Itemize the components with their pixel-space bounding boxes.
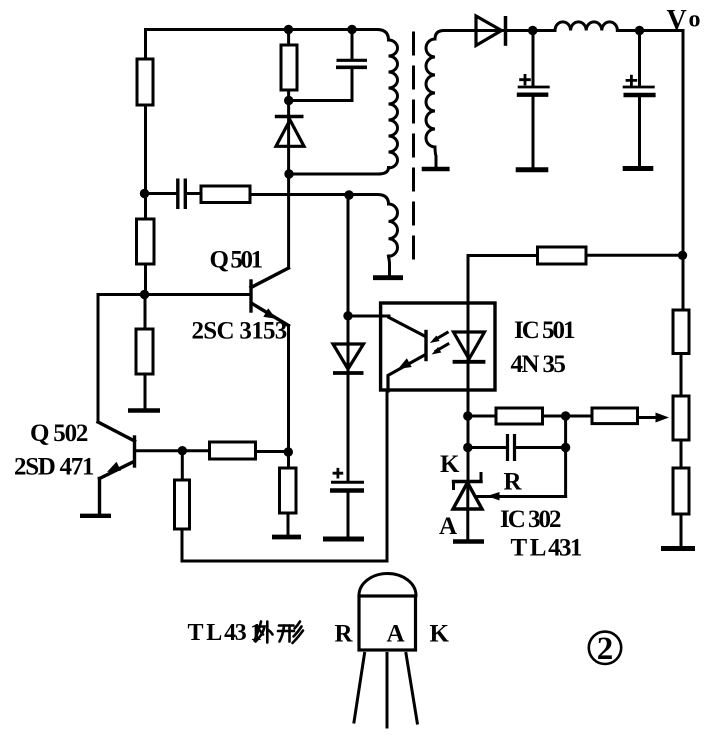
svg-text:T L 43 1: T L 43 1	[188, 620, 261, 646]
svg-text:IC 501: IC 501	[514, 317, 575, 344]
svg-text:R: R	[504, 469, 523, 496]
svg-text:K: K	[430, 621, 450, 648]
svg-text:A: A	[387, 621, 405, 648]
svg-text:Q 502: Q 502	[30, 420, 88, 447]
svg-text:K: K	[440, 451, 460, 478]
svg-text:T L 431: T L 431	[511, 535, 582, 562]
svg-text:R: R	[335, 621, 354, 648]
svg-text:2SD 471: 2SD 471	[14, 454, 94, 481]
svg-text:IC 302: IC 302	[500, 506, 561, 533]
svg-text:2SC 3153: 2SC 3153	[192, 318, 287, 345]
svg-text:V: V	[667, 5, 687, 36]
svg-text:o: o	[689, 7, 701, 33]
svg-text:A: A	[439, 513, 457, 540]
svg-text:2: 2	[597, 631, 614, 667]
svg-text:Q 501: Q 501	[210, 247, 263, 274]
svg-text:4N 35: 4N 35	[511, 351, 566, 378]
